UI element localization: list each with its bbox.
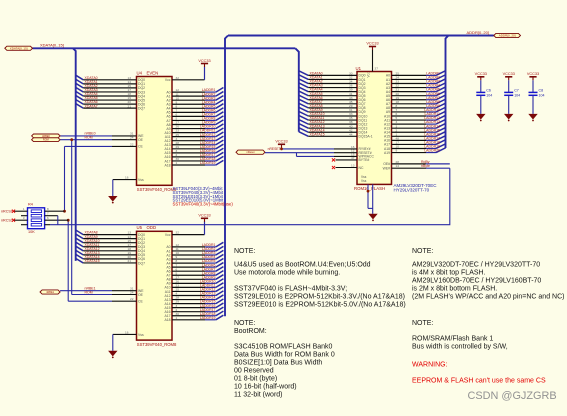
svg-text:(2M FLASH's WP/ACC and A20 pin: (2M FLASH's WP/ACC and A20 pin=NC and NC…	[412, 294, 564, 301]
power VCC33 for U5	[198, 214, 210, 222]
svg-text:LADDR19: LADDR19	[200, 316, 216, 320]
svg-text:WE#: WE#	[383, 167, 390, 171]
svg-text:U1: U1	[356, 66, 362, 71]
svg-text:22: 22	[130, 142, 134, 146]
wire U4 pin A9 to LADDR10	[166, 124, 223, 131]
svg-text:VCC33: VCC33	[366, 42, 378, 46]
wire U5 pin A18 to LADDR19	[164, 315, 223, 322]
wire long BYTE net to U1	[50, 168, 450, 225]
wire U1 pin A12 to LADDR13	[384, 119, 446, 126]
wire XDATA14 to U1 pin DQ14	[299, 128, 368, 135]
wire XDATA1 to U1 pin DQ1	[299, 75, 366, 82]
wire XDATA4 to U1 pin DQ4	[299, 87, 366, 94]
svg-text:00 Reserved: 00 Reserved	[234, 368, 274, 375]
port nReset to U1	[236, 150, 265, 154]
wire U1 pin A5 to LADDR6	[386, 91, 446, 98]
svg-text:DQ15A-1: DQ15A-1	[359, 135, 373, 139]
ground below C6	[476, 114, 485, 122]
no-connect mark on NC pin	[332, 166, 335, 169]
wire R4 pin 5 stub	[45, 224, 50, 226]
svg-text:SST37VF040 is FLASH~4Mbit-3.3V: SST37VF040 is FLASH~4Mbit-3.3V;	[234, 286, 347, 293]
svg-text:nReset: nReset	[247, 151, 255, 154]
svg-text:VCC33: VCC33	[198, 214, 210, 218]
svg-text:nByte: nByte	[421, 164, 430, 168]
wire nRCS1 chain to U5 CE pin 22	[68, 297, 143, 303]
wire XDATA15 to U1 pin DQ15	[299, 132, 373, 139]
svg-text:24: 24	[130, 291, 134, 295]
wire ROM net to U4 OE pin 24	[60, 136, 144, 142]
svg-text:A18: A18	[164, 318, 170, 322]
wire XDATA6 to U4 pin DQ6	[76, 100, 145, 107]
svg-text:SST39VF040_ROM8: SST39VF040_ROM8	[137, 187, 177, 192]
svg-text:Vcc: Vcc	[367, 72, 371, 78]
svg-text:U4&U5 used as BootROM.U4:Even;: U4&U5 used as BootROM.U4:Even;U5:Odd	[234, 262, 371, 269]
wire U4 pin A13 to LADDR14	[164, 140, 223, 147]
svg-text:NOTE:: NOTE:	[234, 320, 255, 327]
wire XDATA7 to U1 pin DQ7	[299, 99, 366, 106]
wire U5 pin A7 to LADDR8	[166, 271, 223, 278]
wire U4 pin A12 to LADDR13	[164, 136, 223, 143]
wire U4 Vss pin 16 to ground	[113, 176, 144, 196]
wire U1 RY/BY output RdBy	[383, 160, 450, 166]
svg-text:XDATA7: XDATA7	[85, 104, 98, 108]
wire U1 pin A1 to LADDR2	[386, 75, 446, 82]
svg-text:Use motorola mode while burnin: Use motorola mode while burning.	[234, 270, 340, 277]
wire U5 Vss pin 16 to ground	[113, 330, 144, 350]
node notes text left column	[234, 248, 406, 399]
svg-text:47: 47	[351, 156, 355, 160]
svg-text:ROM: ROM	[85, 291, 93, 295]
capacitor C6 104 decoupling	[475, 72, 493, 114]
resistor pack R4	[28, 203, 45, 234]
wire XDATA11 to U5 pin DQ3	[76, 242, 145, 249]
svg-text:SST39VF040(3.3V)~4Mbit(use): SST39VF040(3.3V)~4Mbit(use)	[173, 201, 234, 206]
node U1 Vss labels	[361, 175, 367, 183]
wire XDATA1 to U4 pin DQ1	[76, 79, 145, 86]
wire U1 pin A4 to LADDR5	[386, 87, 446, 94]
wire U5 pin A16 to LADDR17	[164, 307, 223, 314]
svg-text:ROM: ROM	[43, 139, 49, 142]
port ADDR[0..20]	[494, 33, 521, 37]
junction RY/BY# pullup	[280, 148, 283, 151]
svg-text:VCC33: VCC33	[275, 140, 287, 144]
svg-text:EEPROM & FLASH can't use the s: EEPROM & FLASH can't use the same CS	[412, 378, 546, 385]
wire R4 pin 8 to CE chain	[45, 207, 65, 211]
wire U1 pin A16 to LADDR17	[384, 136, 446, 143]
wire U5 pin A11 to LADDR12	[165, 287, 224, 294]
wire U5 pin A9 to LADDR10	[166, 279, 223, 286]
svg-text:U5: U5	[137, 225, 143, 230]
wire U4 pin A14 to LADDR15	[164, 144, 223, 151]
svg-text:OE: OE	[138, 138, 144, 142]
wire U1 NC pin stub	[336, 164, 364, 170]
svg-text:S3C4510B ROM/FLASH Bank0: S3C4510B ROM/FLASH Bank0	[234, 344, 333, 351]
wire U1 pin A18 to LADDR19	[384, 144, 446, 151]
svg-text:44: 44	[349, 132, 353, 136]
power VCC33 for U4	[198, 59, 210, 67]
svg-text:1: 1	[176, 161, 178, 165]
wire U1 pin A3 to LADDR4	[386, 83, 446, 90]
wire U4 Vcc pin 32 to VCC33	[165, 67, 205, 83]
wire U5 pin A6 to LADDR7	[166, 267, 223, 274]
svg-text:BYTE#: BYTE#	[359, 158, 370, 162]
svg-text:SST29EE010 is E2PROM-512Kbit-5: SST29EE010 is E2PROM-512Kbit-5.0V./(No A…	[234, 302, 406, 309]
svg-text:ROM: ROM	[85, 136, 93, 140]
ground below U5	[108, 351, 117, 359]
port ROM (U4 output enable)	[32, 138, 60, 142]
wire XDATA5 to U4 pin DQ5	[76, 95, 145, 102]
wire U4 pin A6 to LADDR7	[166, 112, 223, 119]
wire XDATA10 to U1 pin DQ10	[299, 111, 368, 118]
wire nRESET to U1 RESET# pin	[265, 147, 372, 155]
svg-text:XDATA[0..15]: XDATA[0..15]	[40, 43, 64, 48]
wire ROM net to U5 OE pin 24	[72, 291, 144, 297]
wire XDATA13 to U5 pin DQ5	[76, 250, 145, 257]
svg-text:104: 104	[514, 93, 520, 97]
wire nRCS1 vertical R4 to U5 CE	[67, 220, 69, 301]
svg-text:XDATA15: XDATA15	[310, 132, 325, 136]
node notes text right column	[412, 248, 564, 385]
svg-text:nRBE1: nRBE1	[46, 291, 55, 294]
power VCC33 pullup near U1 control	[275, 140, 287, 149]
svg-text:CE: CE	[138, 145, 143, 149]
svg-text:Bus width is controlled by S/W: Bus width is controlled by S/W,	[412, 344, 508, 351]
svg-text:ROM16_FLASH: ROM16_FLASH	[354, 186, 385, 191]
wire U5 pin A10 to LADDR11	[164, 283, 223, 290]
wire ADDR bus vertical left U4/U5 side	[225, 36, 228, 317]
svg-text:C8: C8	[539, 88, 544, 92]
wire U4 pin A11 to LADDR12	[165, 132, 224, 139]
wire XDATA4 to U4 pin DQ4	[76, 91, 145, 98]
port nRBE0 (U4 write enable)	[32, 134, 60, 138]
wire nRBE1 to U5 WE pin 31	[60, 287, 144, 294]
svg-text:VCC33: VCC33	[503, 72, 515, 76]
wire nRCS0 chain to U4 CE pin 22	[65, 142, 144, 148]
svg-text:01 8-bit (byte): 01 8-bit (byte)	[234, 376, 277, 383]
svg-text:21: 21	[128, 104, 132, 108]
svg-text:LADDR20: LADDR20	[424, 149, 440, 153]
wire XDATA bus branch vertical to U4/U5	[73, 48, 76, 261]
svg-text:nRCS1: nRCS1	[1, 218, 13, 222]
svg-text:24: 24	[130, 136, 134, 140]
svg-text:Data Bus Width for ROM Bank 0: Data Bus Width for ROM Bank 0	[234, 352, 335, 359]
svg-text:DQ7: DQ7	[138, 261, 145, 265]
svg-text:is 4M x 8bit top FLASH.: is 4M x 8bit top FLASH.	[412, 270, 486, 277]
wire U5 pin A17 to LADDR18	[164, 311, 223, 318]
wire U1 pin A17 to LADDR18	[384, 140, 446, 147]
no-connect mark on BYTE#	[332, 158, 335, 161]
svg-text:OE: OE	[138, 293, 144, 297]
wire XDATA8 to U5 pin DQ0	[76, 230, 145, 237]
svg-text:VCC33: VCC33	[198, 59, 210, 63]
svg-text:A18: A18	[164, 163, 170, 167]
power VCC33 for U1	[366, 42, 378, 50]
wire XDATA15 to U5 pin DQ7	[76, 258, 145, 265]
svg-text:NOTE:: NOTE:	[234, 248, 255, 255]
wire U4 pin A16 to LADDR17	[164, 152, 223, 159]
svg-text:NOTE:: NOTE:	[412, 320, 433, 327]
svg-text:DQ7: DQ7	[138, 106, 145, 110]
wire U4 pin A3 to LADDR4	[166, 100, 223, 107]
svg-text:13: 13	[351, 164, 355, 168]
svg-text:32: 32	[176, 231, 180, 235]
wire U1 pin A7 to LADDR8	[386, 99, 446, 106]
port XDATA[0..15]	[5, 46, 33, 50]
svg-text:CSDN @GJZGRB: CSDN @GJZGRB	[468, 390, 557, 402]
wire U1 pin A6 to LADDR7	[386, 95, 446, 102]
wire XDATA13 to U1 pin DQ13	[299, 124, 368, 131]
wire U1 pin A19 to LADDR20	[384, 148, 446, 155]
junction U1 ground wires	[367, 190, 370, 193]
svg-text:10K: 10K	[28, 230, 35, 234]
svg-text:14: 14	[396, 164, 400, 168]
wire U4 pin A2 to LADDR3	[166, 96, 223, 103]
node CSDN watermark	[468, 390, 557, 402]
wire U5 pin A5 to LADDR6	[166, 263, 223, 270]
junction OE chain at U4	[70, 138, 73, 141]
svg-text:R4: R4	[28, 203, 33, 207]
svg-text:VCC33: VCC33	[475, 72, 487, 76]
svg-text:Vss: Vss	[361, 179, 367, 183]
wire R4 pin 7 to BYTE net	[45, 212, 58, 225]
wire U1 pin A14 to LADDR15	[384, 128, 446, 135]
svg-text:ROM/SRAM/Flash Bank 1: ROM/SRAM/Flash Bank 1	[412, 336, 493, 343]
wire nRCS0 to R4 pin 1	[1, 207, 28, 213]
node XDATA bus net label	[40, 43, 64, 48]
wire ADDR bus horizontal top	[228, 35, 494, 37]
svg-text:NOTE:: NOTE:	[412, 248, 433, 255]
wire WP#/ACC pin	[297, 152, 375, 158]
wire XDATA6 to U1 pin DQ6	[299, 95, 366, 102]
wire XDATA0 to U1 pin DQ0	[299, 71, 366, 78]
wire XDATA3 to U4 pin DQ3	[76, 87, 145, 94]
wire U5 pin A14 to LADDR15	[164, 299, 223, 306]
wire R4 pin 6 to nRCS1 chain	[45, 216, 69, 220]
wire U1 pin A13 to LADDR14	[384, 123, 446, 130]
wire XDATA8 to U1 pin DQ8	[299, 103, 366, 110]
wire U5 pin A15 to LADDR16	[164, 303, 223, 310]
wire U1 pin A10 to LADDR11	[384, 111, 446, 118]
svg-text:BootROM:: BootROM:	[234, 328, 267, 335]
wire U5 pin A12 to LADDR13	[164, 291, 223, 298]
wire U4 pin A0 to LADDR1	[166, 88, 223, 95]
svg-text:U4: U4	[137, 70, 143, 75]
wire ADDR bus vertical right U1 side	[446, 36, 449, 149]
capacitor C7 104 decoupling	[503, 72, 521, 114]
wire U5 pin A1 to LADDR2	[166, 246, 223, 253]
svg-text:11 32-bit (word): 11 32-bit (word)	[234, 392, 283, 399]
wire XDATA2 to U4 pin DQ2	[76, 83, 145, 90]
wire U1 pin A8 to LADDR9	[386, 103, 446, 110]
op-amp U5 ODD boot ROM IC body	[137, 225, 178, 347]
wire U4 pin A10 to LADDR11	[164, 128, 223, 135]
wire U1 pin A11 to LADDR12	[384, 115, 445, 122]
svg-text:22: 22	[130, 297, 134, 301]
op-amp U1 FLASH IC body	[354, 66, 392, 191]
wire U1 pin A0 to LADDR1	[386, 71, 446, 78]
svg-text:21: 21	[128, 259, 132, 263]
node U4 alternative part list text	[173, 186, 234, 206]
wire XDATA5 to U1 pin DQ5	[299, 91, 366, 98]
port nRBE1 (U5 write enable)	[40, 290, 60, 294]
node ADDR bus net label	[467, 30, 489, 35]
svg-text:Vss: Vss	[138, 333, 144, 337]
svg-text:AM29LV160DB-70EC / HY29LV160BT: AM29LV160DB-70EC / HY29LV160BT-70	[412, 278, 541, 285]
svg-text:Vss: Vss	[138, 178, 144, 182]
wire U4 pin A7 to LADDR8	[166, 116, 223, 123]
svg-text:VCC33: VCC33	[527, 72, 539, 76]
wire U5 pin A8 to LADDR9	[166, 275, 223, 282]
wire U1 pin A15 to LADDR16	[384, 132, 446, 139]
svg-text:ADDR[0..20]: ADDR[0..20]	[499, 34, 516, 38]
svg-text:NC: NC	[359, 166, 364, 170]
wire XDATA10 to U5 pin DQ2	[76, 238, 145, 245]
svg-text:9: 9	[396, 149, 398, 153]
svg-text:SST29LE010 is E2PROM-512Kbit-3: SST29LE010 is E2PROM-512Kbit-3.3V./(No A…	[234, 294, 405, 301]
svg-text:SST39VF040_ROM8: SST39VF040_ROM8	[137, 342, 177, 347]
wire U1 BYTE# NC stub	[336, 156, 370, 162]
svg-text:A19: A19	[384, 151, 390, 155]
wire U1 Vss pins to ground	[368, 184, 373, 213]
svg-text:nRCS0: nRCS0	[1, 209, 13, 213]
wire U1 BYTE# to long net	[383, 164, 450, 170]
wire U5 pin A0 to LADDR1	[166, 242, 223, 249]
wire XDATA9 to U1 pin DQ9	[299, 107, 366, 114]
svg-text:B0SIZE[1:0] Data Bus Width: B0SIZE[1:0] Data Bus Width	[234, 360, 322, 367]
node U1 part numbers text	[394, 183, 438, 192]
svg-text:ADDR[0..20]: ADDR[0..20]	[467, 30, 489, 35]
ground below U1	[368, 214, 377, 222]
wire U1 Vcc pin 37 to VCC33	[367, 50, 379, 78]
svg-text:104: 104	[486, 93, 492, 97]
wire U4 pin A17 to LADDR18	[164, 156, 223, 163]
wire U5 pin A13 to LADDR14	[164, 295, 223, 302]
svg-text:XDATA[0..15]: XDATA[0..15]	[10, 46, 28, 50]
wire U4 pin A15 to LADDR16	[164, 148, 223, 155]
wire U5 pin A3 to LADDR4	[166, 254, 223, 261]
wire XDATA0 to U4 pin DQ0	[76, 75, 145, 82]
wire R4 pin 2 stub	[21, 215, 28, 217]
svg-text:ODD: ODD	[147, 225, 157, 230]
junction nRCS1 at resistor pack row	[67, 219, 70, 222]
svg-text:is 2M x 8bit bottom FLASH.: is 2M x 8bit bottom FLASH.	[412, 286, 497, 293]
junction nRCS0 at resistor pack pin	[63, 210, 66, 213]
wire XDATA bus horizontal top	[33, 47, 296, 49]
wire nRCS1 to R4 pin 3	[1, 216, 28, 222]
op-amp U4 EVEN boot ROM IC body	[137, 70, 178, 192]
wire U5 Vcc pin 32 to VCC33	[165, 221, 205, 237]
svg-text:37: 37	[375, 67, 379, 71]
wire XDATA9 to U5 pin DQ1	[76, 234, 145, 241]
wire XDATA3 to U1 pin DQ3	[299, 83, 366, 90]
svg-text:C6: C6	[486, 88, 491, 92]
svg-text:1: 1	[176, 316, 178, 320]
svg-text:10 16-bit (half-word): 10 16-bit (half-word)	[234, 384, 297, 391]
svg-text:nRESET: nRESET	[268, 147, 281, 151]
svg-text:16: 16	[125, 176, 129, 180]
svg-text:HY29LV320TT-70: HY29LV320TT-70	[394, 188, 430, 193]
wire U4 pin A4 to LADDR5	[166, 104, 223, 111]
svg-text:AM29LV320DT-70EC / HY29LV320TT: AM29LV320DT-70EC / HY29LV320TT-70	[412, 262, 540, 269]
wire XDATA7 to U4 pin DQ7	[76, 104, 145, 111]
svg-text:104: 104	[539, 93, 545, 97]
wire U4 pin A18 to LADDR19	[164, 160, 223, 167]
wire XDATA11 to U1 pin DQ11	[299, 115, 367, 122]
svg-text:XDATA15: XDATA15	[85, 259, 100, 263]
svg-text:CE: CE	[138, 300, 143, 304]
svg-text:16: 16	[125, 330, 129, 334]
svg-text:LADDR19: LADDR19	[200, 161, 216, 165]
ground below C7	[504, 114, 513, 122]
wire XDATA12 to U1 pin DQ12	[299, 120, 368, 127]
wire U4 pin A5 to LADDR6	[166, 108, 223, 115]
wire U5 pin A4 to LADDR5	[166, 259, 223, 266]
svg-text:WARNING:: WARNING:	[412, 362, 448, 369]
wire XDATA bus vertical to U1	[295, 48, 299, 132]
wire R4 pin 4 stub	[21, 224, 28, 226]
svg-text:C7: C7	[514, 88, 519, 92]
wire XDATA14 to U5 pin DQ6	[76, 254, 145, 261]
ground below U4	[108, 196, 117, 204]
wire XDATA12 to U5 pin DQ4	[76, 246, 145, 253]
wire XDATA2 to U1 pin DQ2	[299, 79, 366, 86]
wire nRBE0 to U4 WE pin 31	[60, 132, 144, 139]
wire U4 pin A1 to LADDR2	[166, 92, 223, 99]
capacitor C8 104 decoupling	[527, 72, 545, 114]
wire U5 pin A2 to LADDR3	[166, 250, 223, 257]
wire U4 pin A8 to LADDR9	[166, 120, 223, 127]
wire U1 pin A2 to LADDR3	[386, 79, 446, 86]
svg-text:Vcc: Vcc	[165, 78, 171, 82]
wire nRCS0 vertical U4 CE to R4	[64, 146, 66, 211]
wire ROM/OE chain vertical U4 to U5	[71, 140, 73, 295]
svg-text:32: 32	[176, 76, 180, 80]
wire U1 pin A9 to LADDR10	[386, 107, 446, 114]
svg-text:EVEN: EVEN	[147, 70, 159, 75]
svg-text:Vcc: Vcc	[165, 233, 171, 237]
ground below C8	[528, 114, 537, 122]
wire RY/BY# pullup from VCC33	[282, 145, 371, 151]
